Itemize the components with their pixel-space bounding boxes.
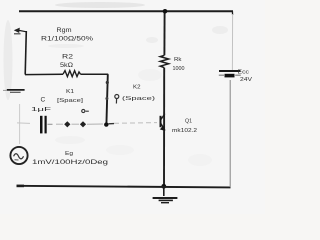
- svg-text:Ecc: Ecc: [238, 70, 250, 76]
- svg-text:K2: K2: [133, 84, 141, 90]
- svg-text:C: C: [41, 97, 46, 104]
- svg-text:5kΩ: 5kΩ: [60, 62, 73, 69]
- svg-text:24V: 24V: [240, 77, 252, 83]
- svg-text:Rgm: Rgm: [57, 28, 72, 34]
- svg-text:(Space): (Space): [122, 96, 155, 102]
- svg-text:1mV/100Hz/0Deg: 1mV/100Hz/0Deg: [32, 159, 109, 166]
- svg-text:K1: K1: [66, 89, 74, 95]
- svg-text:Rk: Rk: [174, 57, 182, 63]
- svg-text:1000: 1000: [173, 66, 185, 72]
- svg-text:Eg: Eg: [65, 151, 73, 157]
- svg-text:Q1: Q1: [185, 118, 192, 124]
- svg-text:mk102.2: mk102.2: [172, 128, 197, 134]
- svg-text:R2: R2: [62, 55, 74, 61]
- svg-text:R1/100Ω/50%: R1/100Ω/50%: [41, 37, 94, 43]
- svg-text:1μF: 1μF: [31, 107, 52, 113]
- svg-text:[Space]: [Space]: [57, 98, 84, 104]
